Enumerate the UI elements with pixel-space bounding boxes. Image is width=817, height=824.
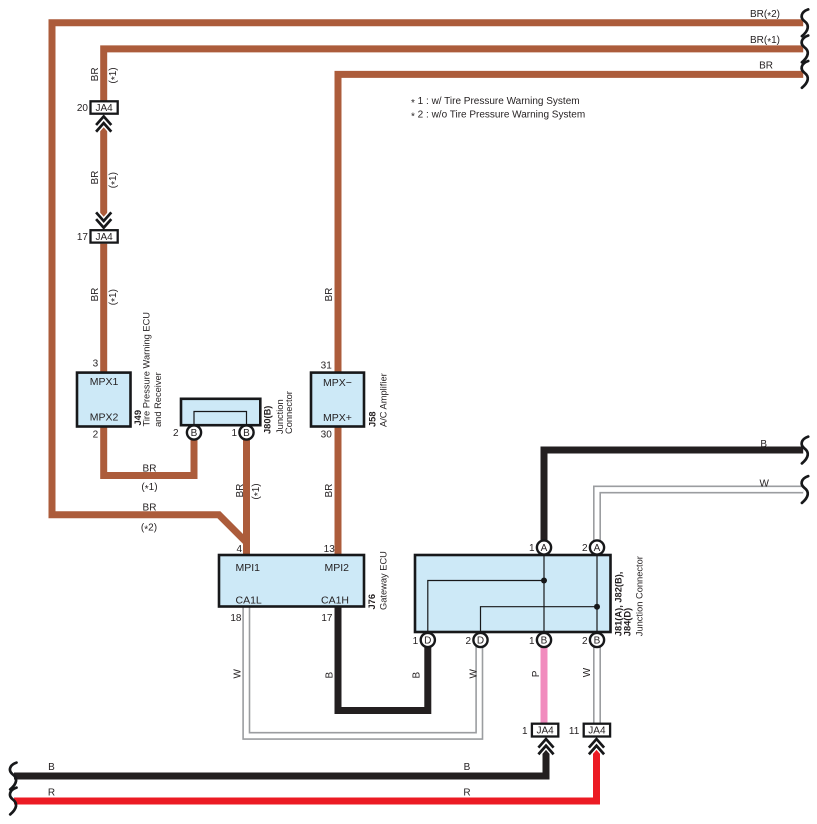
connector JA4 1 (bottom) <box>532 724 558 755</box>
svg-text:* 2 : w/o Tire Pressure Warnin: * 2 : w/o Tire Pressure Warning System <box>411 110 585 123</box>
svg-text:BR: BR <box>90 67 101 81</box>
svg-text:BR(*1): BR(*1) <box>750 35 780 48</box>
svg-text:P: P <box>531 670 542 677</box>
inner line 1A-1B <box>543 548 545 641</box>
svg-text:R: R <box>48 788 55 799</box>
wire B junction 1(A) up to right edge <box>544 450 803 548</box>
svg-text:2: 2 <box>582 543 588 554</box>
svg-text:D: D <box>424 636 431 647</box>
connector JA4 11 (bottom) <box>584 724 610 755</box>
svg-text:2: 2 <box>465 636 471 647</box>
block J80(B) junction connector <box>181 399 260 425</box>
svg-text:BR: BR <box>143 464 157 475</box>
wire W CA1L to junction 2(D) <box>246 607 479 736</box>
svg-text:A: A <box>594 543 601 554</box>
block J58 A/C Amplifier <box>311 373 364 427</box>
wire BR(*2) top: from right edge, left and down left side, to gateway pin 4 <box>52 23 803 555</box>
svg-text:MPI1: MPI1 <box>236 562 261 574</box>
svg-text:17: 17 <box>77 232 89 243</box>
wire B bottom horizontal to JA4 1 chevron <box>14 751 546 776</box>
pin circle 2B <box>590 633 604 647</box>
svg-text:JA4: JA4 <box>588 726 606 737</box>
pin circle 1A <box>537 540 551 554</box>
wire BR J58 MPX+ down to gateway pin 13 <box>335 427 342 556</box>
svg-text:CA1H: CA1H <box>321 595 349 607</box>
svg-text:18: 18 <box>230 613 242 624</box>
svg-text:B: B <box>243 428 250 439</box>
svg-text:MPX1: MPX1 <box>90 376 119 388</box>
inner branch 2D <box>481 607 598 640</box>
svg-text:W: W <box>468 669 479 679</box>
svg-text:MPX+: MPX+ <box>323 412 352 424</box>
svg-text:1: 1 <box>529 636 535 647</box>
svg-text:BR: BR <box>90 171 101 185</box>
pin circle 2D <box>473 633 487 647</box>
svg-text:Tire Pressure Warning ECU: Tire Pressure Warning ECU <box>142 312 152 427</box>
svg-text:CA1L: CA1L <box>236 595 262 607</box>
svg-text:D: D <box>477 636 484 647</box>
svg-text:2: 2 <box>93 429 99 440</box>
wire BR(*1) top horizontal to JA4 20 <box>104 49 804 101</box>
wire BR J49 MPX2 to J80 pin 2 <box>104 427 194 476</box>
svg-text:BR(*2): BR(*2) <box>750 9 780 22</box>
svg-text:Junction Connector: Junction Connector <box>635 556 645 636</box>
svg-text:BR: BR <box>759 61 773 72</box>
continuation squiggle W right <box>802 476 809 503</box>
continuation squiggle BR right <box>802 61 809 88</box>
svg-text:J58: J58 <box>368 411 378 427</box>
svg-text:B: B <box>412 672 423 679</box>
svg-text:W: W <box>582 667 593 677</box>
svg-text:JA4: JA4 <box>536 726 554 737</box>
svg-text:20: 20 <box>77 103 89 114</box>
svg-text:2: 2 <box>173 428 179 439</box>
block J49 Tire Pressure Warning ECU <box>77 373 131 427</box>
svg-text:2: 2 <box>582 636 588 647</box>
svg-text:R: R <box>463 788 470 799</box>
svg-text:1: 1 <box>413 636 419 647</box>
svg-text:MPX2: MPX2 <box>90 412 119 424</box>
continuation squiggle B right <box>802 437 809 464</box>
junction dot 1 <box>541 578 547 584</box>
wire R bottom horizontal to JA4 11 chevron <box>14 751 597 801</box>
svg-text:B: B <box>48 762 55 773</box>
block J76 Gateway ECU <box>219 555 364 607</box>
svg-text:B: B <box>594 636 601 647</box>
svg-text:BR: BR <box>324 484 335 498</box>
connector JA4 20 <box>91 101 118 131</box>
svg-text:B: B <box>325 672 336 679</box>
svg-text:J84(D): J84(D) <box>623 608 633 636</box>
svg-text:17: 17 <box>321 613 333 624</box>
svg-text:(*1): (*1) <box>108 172 121 188</box>
connector JA4 17 <box>91 212 118 243</box>
svg-text:A/C Amplifier: A/C Amplifier <box>378 373 388 427</box>
continuation squiggle BR(*1) right <box>802 36 809 63</box>
svg-text:4: 4 <box>236 544 242 555</box>
svg-text:MPX−: MPX− <box>323 377 352 389</box>
svg-text:Connector: Connector <box>284 391 294 434</box>
svg-text:1: 1 <box>529 543 535 554</box>
svg-text:and Receiver: and Receiver <box>153 372 163 427</box>
svg-text:1: 1 <box>522 726 528 737</box>
junction dot 2 <box>594 604 600 610</box>
wire B CA1H to junction 1(D) <box>338 607 428 711</box>
svg-text:1: 1 <box>231 428 237 439</box>
svg-text:BR: BR <box>235 484 246 498</box>
svg-text:B: B <box>464 762 471 773</box>
svg-text:30: 30 <box>321 429 333 440</box>
svg-text:BR: BR <box>143 503 157 514</box>
svg-text:3: 3 <box>93 358 99 369</box>
wire BR between JA4 20 and JA4 17, pointed ends at chevrons <box>100 124 107 220</box>
svg-text:W: W <box>760 478 770 489</box>
block J81(A) J82(B) J84(D) junction connector <box>415 548 611 641</box>
continuation squiggle BR(*2) right <box>802 9 809 36</box>
svg-text:13: 13 <box>324 544 336 555</box>
pin circle J80-1 <box>239 425 253 439</box>
svg-text:J76: J76 <box>367 594 377 610</box>
svg-text:MPI2: MPI2 <box>324 562 349 574</box>
wire W junction 2(A) up to right edge <box>597 490 803 548</box>
inner line 2A-2B <box>596 548 598 641</box>
continuation squiggle B bottom-left <box>10 763 17 790</box>
wire BR JA4 17 to J49 MPX1 <box>100 244 107 373</box>
wire P junction 1(B) down to JA4 1 <box>541 640 548 724</box>
svg-text:BR: BR <box>324 288 335 302</box>
svg-text:(*1): (*1) <box>251 483 264 499</box>
svg-text:B: B <box>541 636 548 647</box>
svg-text:(*1): (*1) <box>141 482 157 495</box>
pin circle 1D <box>421 633 435 647</box>
svg-text:W: W <box>233 669 244 679</box>
pin circle 1B <box>537 633 551 647</box>
svg-text:31: 31 <box>321 361 333 372</box>
svg-text:J80(B): J80(B) <box>262 406 272 434</box>
wire BR J80 pin 1 down to gateway pin 4 <box>243 433 250 556</box>
svg-text:(*1): (*1) <box>108 289 121 305</box>
wire W junction 2(B) down to JA4 11 <box>593 640 601 724</box>
svg-text:Gateway ECU: Gateway ECU <box>378 551 388 610</box>
svg-text:B: B <box>760 439 767 450</box>
svg-text:JA4: JA4 <box>95 103 113 114</box>
inner branch 1D <box>428 581 544 641</box>
svg-text:(*2): (*2) <box>141 523 157 536</box>
svg-text:B: B <box>191 428 198 439</box>
svg-text:A: A <box>541 543 548 554</box>
pin circle J80-2 <box>187 425 201 439</box>
svg-text:11: 11 <box>569 726 580 737</box>
svg-text:BR: BR <box>90 288 101 302</box>
wire BR A/C: right edge to J58 MPX- <box>338 74 803 372</box>
svg-text:JA4: JA4 <box>95 232 113 243</box>
svg-text:(*1): (*1) <box>108 67 121 83</box>
continuation squiggle R bottom-left <box>10 788 17 815</box>
svg-text:* 1 : w/ Tire Pressure Warning: * 1 : w/ Tire Pressure Warning System <box>411 96 580 109</box>
pin circle 2A <box>590 540 604 554</box>
